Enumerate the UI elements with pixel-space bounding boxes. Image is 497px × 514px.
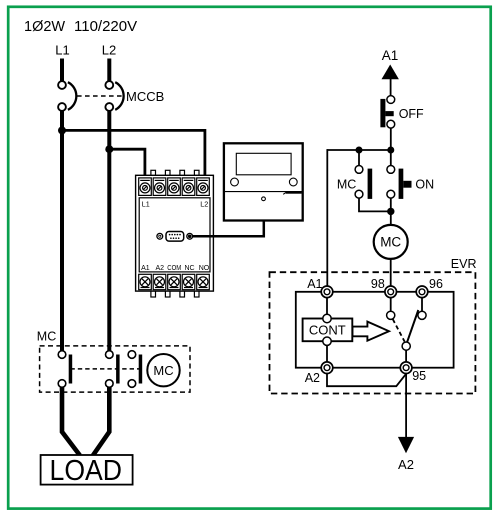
svg-text:A1: A1 bbox=[141, 265, 150, 272]
U1 bottom terminal screw NC bbox=[182, 274, 195, 289]
U1 mounting tabs top bbox=[151, 170, 199, 177]
relay contact pole 96 bbox=[418, 311, 426, 319]
svg-text:NO: NO bbox=[199, 265, 210, 272]
U2 button left bbox=[231, 178, 239, 186]
breaker MCCB pole 2 bbox=[105, 81, 123, 111]
contactor MC enclosure (dashed) bbox=[40, 346, 190, 392]
svg-text:A1: A1 bbox=[307, 277, 322, 291]
EVR internal diagram bbox=[270, 257, 477, 472]
wire 98 to contact bbox=[390, 298, 392, 312]
contactor MC (power contacts) bbox=[37, 330, 190, 393]
relay armature (open position, dashed) bbox=[393, 319, 405, 341]
svg-text:MC: MC bbox=[37, 330, 56, 344]
relay pivot bbox=[402, 342, 410, 350]
U1 bottom terminal screw A1 bbox=[139, 274, 152, 289]
junction MC branch bbox=[356, 147, 363, 154]
pushbutton ON (NO) bbox=[387, 166, 412, 199]
svg-text:A2: A2 bbox=[156, 265, 165, 272]
U2 button right bbox=[289, 178, 297, 186]
pushbutton OFF (NC) bbox=[380, 96, 394, 128]
svg-text:1Ø2W: 1Ø2W bbox=[24, 19, 65, 35]
terminal A2 bbox=[321, 362, 333, 374]
auxiliary contact MC (NO) bbox=[355, 166, 372, 199]
wire L2 junction to EVR unit terminal L1 bbox=[109, 149, 145, 175]
svg-text:L1: L1 bbox=[142, 199, 150, 208]
wire L2 vertical bbox=[107, 111, 111, 351]
U1 top terminal screw 3 bbox=[168, 178, 181, 196]
svg-text:MC: MC bbox=[380, 235, 401, 250]
control circuit right side bbox=[327, 48, 434, 286]
EVR relay unit U1 (terminal block) bbox=[136, 170, 214, 297]
wire MC contact to join bbox=[359, 198, 391, 211]
U1 top terminal screw L1 bbox=[139, 178, 152, 196]
wire A1 to CONT bbox=[326, 298, 328, 315]
U1 mounting tabs bottom bbox=[151, 290, 199, 297]
svg-text:ON: ON bbox=[415, 177, 434, 191]
svg-text:NC: NC bbox=[184, 265, 194, 272]
display panel unit U2 bbox=[224, 143, 303, 220]
junction on L1 bbox=[58, 126, 66, 134]
svg-text:LOAD: LOAD bbox=[50, 455, 123, 487]
U2 lower button bbox=[262, 197, 266, 201]
coil MC bbox=[374, 225, 408, 259]
wire L1 vertical bbox=[60, 111, 64, 351]
svg-text:96: 96 bbox=[429, 277, 443, 291]
U1 top terminal screw L2 bbox=[197, 178, 210, 196]
U1 top terminal screw 4 bbox=[182, 178, 195, 196]
U1 body bbox=[136, 175, 214, 291]
U1 comm port screw right bbox=[187, 233, 193, 239]
label: system rating 1Ø2W 110/220V bbox=[24, 18, 137, 35]
U1 comm port DB9 connector bbox=[166, 232, 184, 242]
breaker MCCB pole 1 bbox=[58, 81, 76, 111]
wire panel to U1 communication port bbox=[192, 221, 264, 237]
wire coil to EVR terminal 98 bbox=[390, 259, 392, 286]
svg-text:MC: MC bbox=[153, 363, 173, 378]
wire L1 entry stub bbox=[60, 59, 64, 82]
wire ON to join bbox=[390, 198, 392, 211]
relay contact pole 98 bbox=[387, 311, 395, 319]
wire contact1 to load bbox=[62, 387, 80, 455]
wire 95 to A2 output bbox=[405, 374, 407, 438]
svg-text:110/220V: 110/220V bbox=[74, 18, 137, 35]
junction on L2 bbox=[105, 145, 113, 153]
terminal 95 bbox=[400, 362, 412, 374]
wire A2 to 95 node bbox=[327, 374, 406, 387]
arrow to A1 bbox=[382, 65, 399, 80]
controller CONT box bbox=[303, 319, 353, 342]
EVR internal frame bbox=[296, 292, 454, 368]
wire to ON button bbox=[390, 150, 392, 166]
MC main contact 1 bbox=[58, 351, 72, 388]
load bbox=[41, 387, 133, 487]
wire to MC contact bbox=[358, 150, 360, 166]
U1 front panel bbox=[139, 198, 210, 272]
svg-text:98: 98 bbox=[371, 277, 385, 291]
svg-text:OFF: OFF bbox=[399, 107, 424, 121]
U1 bottom terminal screw COM bbox=[168, 274, 181, 289]
MC coil symbol bbox=[147, 354, 179, 386]
wire L2 entry stub bbox=[107, 59, 111, 82]
U2 latch mark bbox=[283, 192, 287, 194]
terminal 98 bbox=[385, 286, 397, 298]
U1 top terminal screw 2 bbox=[153, 178, 166, 196]
svg-text:MCCB: MCCB bbox=[126, 89, 164, 104]
output block arrow bbox=[353, 322, 390, 341]
pin labels A1 A2 COM NC NO bbox=[141, 265, 210, 272]
wire contact2 to load bbox=[93, 387, 109, 455]
svg-text:A1: A1 bbox=[382, 48, 399, 63]
CONT terminal bottom bbox=[323, 337, 331, 345]
U1 top screw slots bbox=[143, 186, 205, 190]
U2 body bbox=[224, 143, 303, 220]
MC auxiliary contact bbox=[128, 351, 142, 388]
relay armature (closed to 96) bbox=[407, 310, 418, 342]
U2 display window bbox=[236, 153, 291, 175]
MC main contact 2 bbox=[106, 351, 120, 388]
svg-text:CONT: CONT bbox=[309, 323, 346, 338]
svg-text:COM: COM bbox=[167, 265, 181, 272]
wire down to EVR A1 bbox=[326, 149, 328, 286]
wire OFF to branch node bbox=[390, 128, 392, 150]
svg-text:L1: L1 bbox=[55, 43, 69, 58]
wire branch horizontal bbox=[327, 149, 391, 151]
MCCB mechanical linkage bbox=[77, 95, 123, 97]
U1 comm port screw left bbox=[157, 233, 163, 239]
CONT terminal top bbox=[323, 314, 331, 322]
U1 bottom terminal screw NO bbox=[197, 274, 210, 289]
load box bbox=[41, 455, 133, 485]
svg-text:L2: L2 bbox=[102, 43, 116, 58]
junction at coil bbox=[387, 208, 394, 215]
wire L1 junction to EVR unit terminal L2 bbox=[62, 130, 205, 175]
arrow to A2 (output) bbox=[398, 437, 414, 453]
U1 bottom terminal screw A2 bbox=[153, 274, 166, 289]
svg-text:MC: MC bbox=[337, 177, 356, 191]
wire CONT to A2 bbox=[326, 345, 328, 362]
wire 96 to contact bbox=[421, 298, 423, 312]
terminal 96 bbox=[416, 286, 428, 298]
junction ON branch bbox=[387, 147, 394, 154]
MC linkage (dashed) bbox=[70, 368, 140, 370]
terminal A1 bbox=[321, 286, 333, 298]
wire A1 arrow to OFF bbox=[390, 78, 392, 96]
wire join to coil bbox=[390, 211, 392, 225]
wire pivot to 95 bbox=[405, 350, 407, 362]
svg-text:L2: L2 bbox=[200, 199, 208, 208]
U2 cover seam bbox=[224, 191, 303, 193]
svg-text:A2: A2 bbox=[398, 457, 414, 472]
svg-text:A2: A2 bbox=[305, 371, 320, 385]
svg-text:EVR: EVR bbox=[451, 257, 477, 271]
svg-text:95: 95 bbox=[412, 369, 426, 383]
EVR enclosure (dashed) bbox=[270, 272, 476, 393]
